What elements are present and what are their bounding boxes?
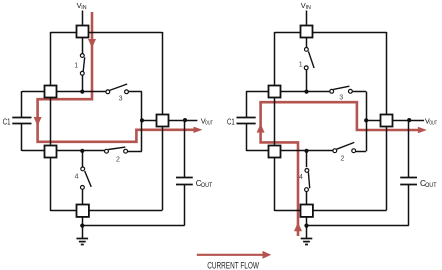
wire VOUT node [142, 120, 198, 122]
wire C1- node to SW2 [56, 150, 104, 152]
svg-text:IN: IN [306, 5, 311, 11]
flow arrowhead down (input leg) [88, 39, 96, 48]
wire SW3 to right branch [128, 91, 142, 93]
wire GND pin to ground [82, 217, 84, 239]
capacitor COUT [400, 178, 417, 185]
flow arrowhead down (through C1) [34, 117, 42, 126]
wire VIN label to VIN pin [82, 11, 84, 27]
node ground junction [80, 224, 84, 228]
wire SW1 to C1+ node [82, 75, 84, 92]
label VIN [301, 1, 311, 11]
pin C1+ terminal [269, 86, 281, 98]
ground symbol [77, 239, 89, 245]
flow arrowhead into VOUT [418, 127, 427, 133]
wire right branch vertical [141, 92, 143, 152]
wire VOUT node [366, 120, 424, 122]
capacitor C1 (left) [12, 118, 31, 124]
wire SW2 to right branch [128, 151, 142, 153]
pin C1- terminal [269, 146, 281, 158]
svg-text:C1: C1 [227, 117, 235, 127]
label VOUT [425, 117, 437, 127]
wire C1+ pin to C1 top [22, 91, 44, 93]
node VOUT-left junction [364, 118, 368, 122]
switch 2 (closed) [105, 147, 128, 163]
label COUT [196, 179, 213, 189]
capacitor C1 (right) [237, 118, 256, 124]
wire VIN pin to SW1 [306, 37, 308, 47]
wire SW1 to C1+ node [306, 70, 308, 92]
svg-text:OUT: OUT [425, 183, 437, 189]
node SW1/C1+ junction [80, 90, 84, 94]
wire VIN pin to SW1 [82, 37, 84, 53]
wire SW4 to GND pin [82, 189, 84, 204]
node VOUT/COUT junction [407, 118, 411, 122]
wire right branch vertical [366, 92, 368, 152]
pin VIN terminal [77, 26, 89, 38]
wire VOUT pin down to bottom rail [386, 126, 388, 210]
wire SW4 to GND pin [306, 189, 308, 204]
pin VOUT terminal [157, 115, 169, 127]
wire C1- node to SW2 [281, 150, 334, 152]
pin GND terminal [77, 205, 89, 217]
wire C1+ node to SW3 [281, 91, 331, 93]
wire COUT to ground rail [408, 184, 410, 226]
pin VOUT terminal [381, 115, 393, 127]
svg-text:2: 2 [116, 156, 120, 163]
wire VIN label to VIN pin [306, 11, 308, 27]
svg-text:1: 1 [299, 62, 303, 69]
wire ground rail to COUT [307, 225, 409, 227]
pin VIN terminal [301, 26, 313, 38]
wire C1- pin down to bottom rail [50, 156, 52, 211]
switch 4 (open) [75, 167, 92, 189]
pin C1+ terminal [45, 86, 57, 98]
svg-text:CURRENT FLOW: CURRENT FLOW [207, 260, 259, 270]
svg-text:OUT: OUT [205, 120, 213, 126]
svg-text:OUT: OUT [429, 120, 437, 126]
node SW1/C1+ junction [304, 90, 308, 94]
current-flow path (VIN through SW1, C1, SW2 to VOUT) [38, 12, 197, 142]
wire to C1- pin [22, 150, 44, 152]
wire GND pin to ground [306, 217, 308, 239]
switch 3 (open) [106, 84, 128, 103]
switch 1 (closed) [74, 54, 84, 76]
node SW4/C1- junction [304, 149, 308, 153]
svg-text:3: 3 [119, 96, 123, 103]
node VOUT-left junction [140, 118, 144, 122]
pin GND terminal [301, 205, 313, 217]
svg-text:4: 4 [75, 174, 79, 181]
wire top rail [50, 32, 162, 34]
node SW4/C1- junction [80, 149, 84, 153]
label COUT [420, 179, 437, 189]
switch 3 (closed) [330, 86, 352, 101]
switch 2 (open) [333, 142, 356, 162]
wire VOUT node down to COUT [408, 120, 410, 177]
wire C1+ pin to C1 top [246, 91, 268, 93]
wire lower node to SW4 [306, 151, 308, 167]
wire C1+ pin to C1- pin [274, 96, 276, 146]
switch 1 (open) [299, 48, 314, 70]
svg-text:IN: IN [81, 5, 86, 11]
label VOUT [201, 117, 213, 127]
wire to C1- pin [246, 150, 268, 152]
current-flow path (GND through SW4, C1, SW3 to VOUT) [261, 102, 421, 236]
wire ground rail to COUT [82, 225, 184, 227]
svg-text:4: 4 [299, 174, 303, 181]
wire SW2 to right branch [356, 151, 366, 153]
flow arrowhead into VOUT [194, 127, 203, 133]
wire C1+ node to SW3 [56, 91, 106, 93]
svg-text:2: 2 [340, 155, 344, 162]
wire left drop to C1+ pin [50, 32, 52, 86]
svg-text:OUT: OUT [201, 183, 213, 189]
wire bottom inner rail [50, 210, 162, 212]
wire C1 bottom plate down [21, 124, 23, 151]
wire VOUT node down to COUT [184, 120, 186, 177]
wire COUT to ground rail [184, 184, 186, 226]
wire left drop to C1+ pin [274, 32, 276, 86]
legend current-flow arrow [197, 251, 271, 259]
wire bottom inner rail [275, 210, 387, 212]
wire lower node to SW4 [82, 151, 84, 167]
wire VOUT pin down to bottom rail [162, 126, 164, 210]
svg-text:1: 1 [74, 62, 78, 69]
ground symbol [301, 239, 313, 245]
wire right drop to VOUT pin [162, 32, 164, 115]
wire right drop to VOUT pin [386, 32, 388, 115]
wire top rail [275, 32, 387, 34]
svg-text:C1: C1 [3, 117, 11, 127]
wire C1- pin down to bottom rail [274, 156, 276, 211]
switch 4 (closed) [299, 169, 310, 192]
svg-text:3: 3 [339, 94, 343, 101]
pin C1- terminal [45, 146, 57, 158]
wire down to C1 top plate [246, 91, 248, 117]
wire C1+ pin to C1- pin [50, 96, 52, 146]
wire SW3 to right branch [353, 91, 367, 93]
flow arrowhead up (ground leg) [294, 222, 302, 231]
flow arrowhead up (through C1) [257, 124, 265, 133]
wire down to C1 top plate [21, 91, 23, 117]
wire C1 bottom plate down [246, 124, 248, 151]
node ground junction [304, 224, 308, 228]
label VIN [77, 1, 87, 11]
node VOUT/COUT junction [183, 118, 187, 122]
capacitor COUT [176, 178, 193, 185]
